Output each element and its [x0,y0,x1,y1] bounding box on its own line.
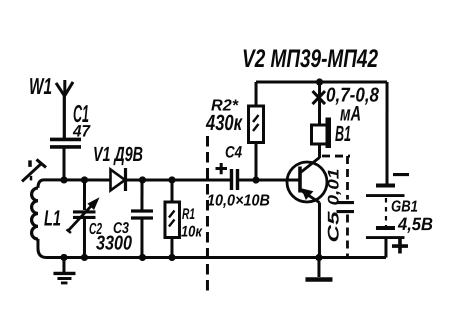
svg-text:10к: 10к [181,223,203,240]
node R1/top [168,176,175,183]
label C1 47 [72,101,91,141]
label C3 3300 [96,220,132,255]
wire diode to C4 [126,178,230,181]
svg-text:430к: 430к [205,110,243,135]
svg-text:3300: 3300 [96,232,132,254]
node ground1 [60,254,67,261]
resistor R1 [165,180,180,258]
svg-text:L1: L1 [44,205,61,230]
label minus [393,173,409,176]
svg-text:47: 47 [72,122,91,140]
antenna W1 [56,80,73,140]
label plus [392,239,408,254]
wire top tank rail [44,178,110,181]
earphone B1 [312,82,332,158]
label R2* 430к [205,97,243,135]
wire bottom rail [46,256,386,259]
node C2/top [81,176,88,183]
svg-text:С5: С5 [325,211,342,243]
capacitor C4 electrolytic [215,163,237,190]
diode V1 [110,168,125,191]
label GB1 4,5В [391,199,433,235]
svg-text:В1: В1 [335,121,351,146]
svg-text:10,0×10В: 10,0×10В [207,192,270,209]
svg-text:4,5В: 4,5В [397,214,433,234]
wire C4 to base [239,179,299,182]
battery GB1 [366,186,405,258]
node C2/bottom [81,254,88,261]
label C4 10,0×10В [207,143,270,209]
capacitor C5 dashed optional [322,156,354,258]
capacitor C3 [131,180,153,258]
tuning arrow over L1/C2 corner [22,159,46,181]
transistor V2 [287,143,327,258]
node C1/top [60,176,67,183]
node emitter/bottom [315,254,322,261]
ground emitter [305,258,332,280]
svg-text:W1: W1 [29,73,52,99]
node rail B1 [316,78,323,85]
wire top supply rail [256,81,387,84]
wire rail to battery [385,82,388,186]
capacitor C1 [50,139,81,180]
label R1 10к [181,206,203,241]
node C3/top [139,176,146,183]
label 0,7-0,8 мА [326,85,380,126]
node base [252,176,259,183]
svg-text:V1 Д9В: V1 Д9В [93,143,143,166]
svg-text:GB1: GB1 [391,199,418,216]
ground left [53,257,75,283]
inductor L1 [32,180,46,258]
svg-text:R1: R1 [182,206,195,223]
node R1/bottom [168,254,175,261]
node C3/bottom [139,254,146,261]
measurement cross X [313,91,326,104]
variable capacitor C2 [66,180,97,258]
svg-text:V2 МП39-МП42: V2 МП39-МП42 [242,45,378,73]
resistor R2 [248,82,263,180]
svg-text:0,01: 0,01 [325,169,342,206]
dashed stage divider [206,136,209,295]
svg-text:C4: C4 [225,144,242,162]
